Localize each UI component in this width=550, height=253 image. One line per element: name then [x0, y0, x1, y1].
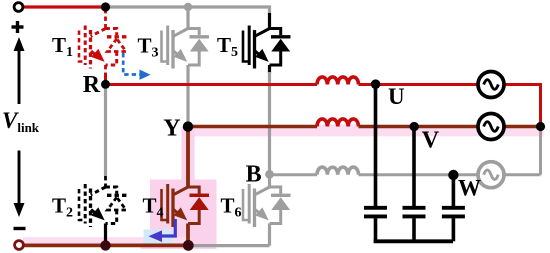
wire: T1 emitter to node R: [104, 65, 107, 75]
svg-text:T2: T2: [52, 194, 73, 221]
arrow: dashed blue current path near T1: [123, 53, 140, 75]
wire: node W down to capacitor C3: [452, 175, 456, 206]
svg-text:T6: T6: [221, 194, 242, 221]
highlight: pink patch around T4: [150, 180, 217, 250]
capacitor C1: [364, 206, 387, 210]
wire: T3 collector lead gray: [186, 7, 189, 29]
highlight: pink conduction path along V phase line: [184, 125, 544, 137]
node R: [101, 80, 110, 89]
wire: node Y down to T4 (dark red): [186, 127, 190, 188]
wire: T3 emitter down to node Y crossing R line: [186, 65, 189, 127]
ac source phase 3 (gray): [478, 162, 504, 188]
arrow up (Vlink): [18, 48, 21, 104]
wire: T5 emitter down to node B crossing R and Y lines: [268, 65, 271, 73]
wire: source 1 to right corner down to junction: [505, 85, 541, 127]
svg-text:T5: T5: [217, 33, 238, 60]
minus sign: [14, 227, 26, 230]
wire: T5 collector lead: [268, 13, 271, 29]
wire: T6 emitter to bottom rail: [268, 224, 271, 246]
wire: top DC rail red segment: [19, 5, 106, 8]
terminal: DC+ input: [14, 3, 23, 12]
diode D4 highlighted (bright red overlay): [190, 194, 210, 197]
highlight: pink band along bottom rail: [23, 237, 191, 243]
capacitor C2: [403, 206, 426, 210]
arrow: blue return current at T4: [161, 219, 175, 236]
wire: top DC rail gray segment with corner down to T5: [106, 7, 270, 15]
wire: L1 to node U to source 1: [359, 83, 478, 86]
svg-text:W: W: [458, 175, 481, 200]
inductor L2 (red): [317, 119, 359, 127]
inductor L3 (gray): [317, 167, 359, 175]
highlight: pink band below T4: [141, 243, 152, 250]
ac source phase 1: [478, 72, 504, 98]
svg-text:R: R: [83, 72, 101, 98]
wire: bottom DC rail dark red segment: [19, 243, 188, 247]
node: top rail junction leg2 (gray): [184, 3, 192, 11]
highlight: light blue patch behind return arrow: [144, 230, 173, 244]
svg-text:T1: T1: [52, 33, 73, 60]
node U: [371, 79, 381, 89]
wire: source 2 to right junction: [505, 125, 539, 128]
wire: node R down to T2 (gray): [104, 85, 107, 177]
wire: L2 to node V to source 2: [359, 125, 478, 128]
node: right side junction: [536, 122, 545, 131]
wire: T4 emitter to bottom rail: [186, 224, 190, 246]
wire: source 3 to right edge: [505, 173, 541, 176]
transistor T5 (black IGBT with diode): [255, 29, 270, 37]
wire: right vertical junction to W line (gray): [539, 127, 542, 175]
wire: node B down to T6: [268, 175, 271, 187]
wire: T1 collector lead dashed red: [104, 9, 107, 29]
wire: capacitor common bus: [374, 239, 453, 243]
svg-text:B: B: [246, 162, 262, 188]
node: bottom rail junction leg1 (dark): [100, 240, 110, 250]
transistor T4 (dark red IGBT with diode, conducting): [173, 187, 188, 195]
wire: phase R line to filter (red): [106, 83, 318, 86]
transistor T1 (dashed red IGBT with diode): [91, 29, 106, 37]
wire: node V down to capacitor C2: [412, 127, 416, 207]
node V: [410, 122, 419, 131]
node: bottom rail junction leg2 (dark): [183, 240, 194, 251]
terminal: DC- input: [15, 241, 24, 250]
svg-text:Vlink: Vlink: [2, 108, 40, 135]
ac source phase 2: [478, 114, 504, 140]
node B (gray): [265, 170, 274, 179]
svg-text:U: U: [388, 84, 405, 109]
wire: T2 emitter to bottom rail: [104, 224, 107, 246]
inductor L1 (red): [317, 77, 359, 85]
capacitor C3: [442, 206, 465, 210]
svg-text:V: V: [422, 128, 440, 154]
wire: phase Y line to filter (dark red): [188, 125, 317, 128]
node: top rail junction leg1: [101, 2, 110, 11]
transistor T2 (dashed black IGBT with diode): [91, 187, 106, 195]
wire: L3 to node W to source 3: [359, 173, 478, 176]
svg-text:T3: T3: [138, 33, 159, 60]
wire: bottom DC rail gray segment: [188, 244, 270, 247]
wire: node U down to capacitor C1: [374, 85, 378, 207]
plus sign: [12, 25, 24, 28]
wire: T2 collector lead dashed black: [104, 176, 107, 187]
highlight: pink band leg 2 vertical: [182, 127, 195, 183]
transistor T6 (gray IGBT with diode): [255, 187, 270, 195]
wire: phase B line to filter (gray): [270, 173, 318, 176]
node W: [448, 170, 458, 180]
node Y: [183, 121, 193, 131]
arrow down (Vlink): [18, 151, 21, 205]
transistor T3 (gray IGBT with diode): [173, 29, 188, 37]
svg-text:Y: Y: [163, 116, 180, 142]
